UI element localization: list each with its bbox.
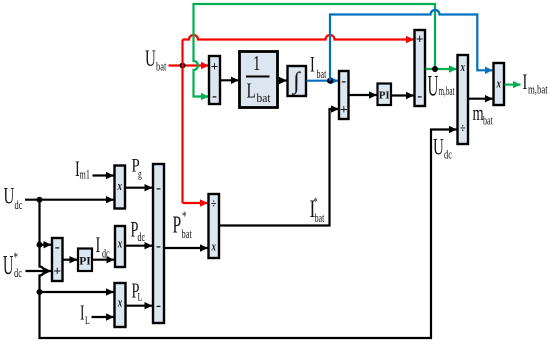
svg-text:-: - [156,239,161,255]
gain block 1/Lbat [240,51,278,107]
svg-text:m,bat: m,bat [439,85,455,99]
PI controller PI1 [378,84,392,106]
svg-text:L: L [247,79,256,102]
wire red top to sum3 with hops [183,35,414,40]
wire I_m,bat green output [505,83,521,85]
divider block D2 (x over divide) [458,55,469,144]
wire Pdc to S5 [126,245,153,247]
svg-text:L: L [138,291,143,304]
svg-text:dc: dc [444,148,452,162]
svg-text:x: x [460,61,466,75]
svg-text:PI: PI [79,255,91,267]
wire Pg to S5 [126,187,153,189]
label m_bat [473,101,493,128]
svg-text:bat: bat [257,91,272,106]
wire m_bat [469,98,493,100]
svg-text:U: U [145,47,156,72]
svg-text:U: U [428,70,439,103]
node U_bat junction [180,63,186,69]
integrator block [288,66,307,96]
svg-text:-: - [156,298,161,314]
wire I_dc to Pdc [93,259,115,261]
svg-text:I: I [523,70,528,95]
wire I_L to PL [92,316,114,318]
svg-text:m,bat: m,bat [528,83,548,97]
label U_m,bat [428,70,455,103]
wire U_bat red input [169,64,209,66]
wire PL to S5 [126,305,152,307]
svg-text:+: + [340,102,348,117]
svg-text:PI: PI [379,90,390,102]
svg-text:U: U [433,136,444,161]
wire green feedback from U_m,bat node to sum1 minus [194,4,436,97]
svg-text:bat: bat [483,115,493,128]
svg-text:+: + [53,264,61,279]
svg-text:bat: bat [317,69,327,82]
wire I_m1 to Pg [93,174,114,176]
label P*_bat [173,207,192,241]
divider block D1 (divide over x) [209,194,220,258]
label P_dc [131,218,146,245]
svg-text:m: m [473,101,485,126]
svg-text:dc: dc [14,266,22,280]
label U_bat [145,47,166,74]
svg-text:bat: bat [315,213,325,226]
wire U_dc to S4 minus [40,244,52,246]
node U_dc junction 3 [37,289,43,295]
svg-text:x: x [117,296,123,310]
label I_m,bat [523,70,548,97]
node I_bat junction [327,78,333,84]
wire P*_bat to divider D1 [165,247,208,249]
svg-text:dc: dc [15,198,23,212]
svg-text:*: * [314,195,318,209]
wire S4 to PI2 [63,259,77,261]
wire S1 to gain [221,79,239,81]
label U_dc left [4,185,23,213]
svg-text:U: U [4,185,15,210]
svg-text:P: P [173,212,182,238]
wire red bottom to divider D1 [183,202,208,204]
svg-text:+: + [416,32,424,47]
svg-text:L: L [85,315,90,328]
label U*_dc [3,248,22,280]
PI controller PI2 [78,249,92,272]
summing block S3 [415,30,426,106]
wire red feedforward vertical [181,40,183,204]
svg-text:x: x [211,240,217,254]
node U_dc junction 1 [37,197,43,203]
summing block S4 [52,238,63,281]
wire U_m,bat green [426,68,457,70]
label I_m1 [75,157,90,182]
svg-text:bat: bat [156,60,166,74]
wire I_bat branch to multiplier with hop [330,10,493,81]
svg-text:-: - [341,74,346,90]
svg-text:I: I [310,53,315,78]
svg-text:m1: m1 [80,169,90,182]
wire U_dc to Pg [25,199,114,201]
node U_m,bat junction [432,66,438,72]
svg-text:÷: ÷ [211,196,217,210]
svg-text:∫: ∫ [291,69,301,96]
svg-text:-: - [55,240,60,256]
wire U*_dc to S4 plus [26,270,52,272]
svg-text:x: x [117,180,123,194]
svg-text:bat: bat [182,227,192,241]
svg-text:+: + [211,59,219,74]
svg-text:I: I [96,233,101,258]
multiplier block M2 (Pdc) [115,226,125,267]
label I_bat [310,53,326,82]
wire U_dc vertical bus with hop over U*_dc wire, to divider D2 [40,130,457,339]
wire gain to integrator [279,79,287,81]
svg-text:x: x [117,237,123,251]
svg-text:*: * [182,207,187,224]
svg-text:dc: dc [138,232,146,245]
summing block S2 [339,71,349,119]
svg-text:I: I [80,301,85,325]
svg-text:*: * [14,248,19,265]
svg-text:-: - [156,181,161,197]
label U_dc right [433,136,452,163]
wire I*_bat to S2 plus [220,109,339,226]
wire U_dc to PL [40,291,114,293]
svg-text:dc: dc [102,248,110,261]
multiplier block M4 output [494,63,505,105]
multiplier block M3 (PL) [115,283,126,327]
label I*_bat [310,195,325,226]
svg-text:-: - [417,89,422,105]
label P_L [132,279,143,304]
summing block S1 [209,56,220,105]
wire I_bat blue [307,80,339,82]
wire S2 to PI1 [349,94,377,96]
svg-text:x: x [496,77,502,91]
svg-text:U: U [3,250,14,280]
label I_dc [96,233,110,261]
label P_g [132,155,142,181]
multiplier block M1 (Pg) [115,166,126,209]
svg-text:÷: ÷ [460,121,466,135]
label I_L [80,301,90,328]
wire PI1 to S3 [392,94,414,96]
svg-text:-: - [212,89,217,105]
node U_dc junction 2 [37,242,43,248]
svg-text:g: g [138,168,142,181]
summing block S5 [153,164,164,323]
svg-text:1: 1 [253,51,260,74]
